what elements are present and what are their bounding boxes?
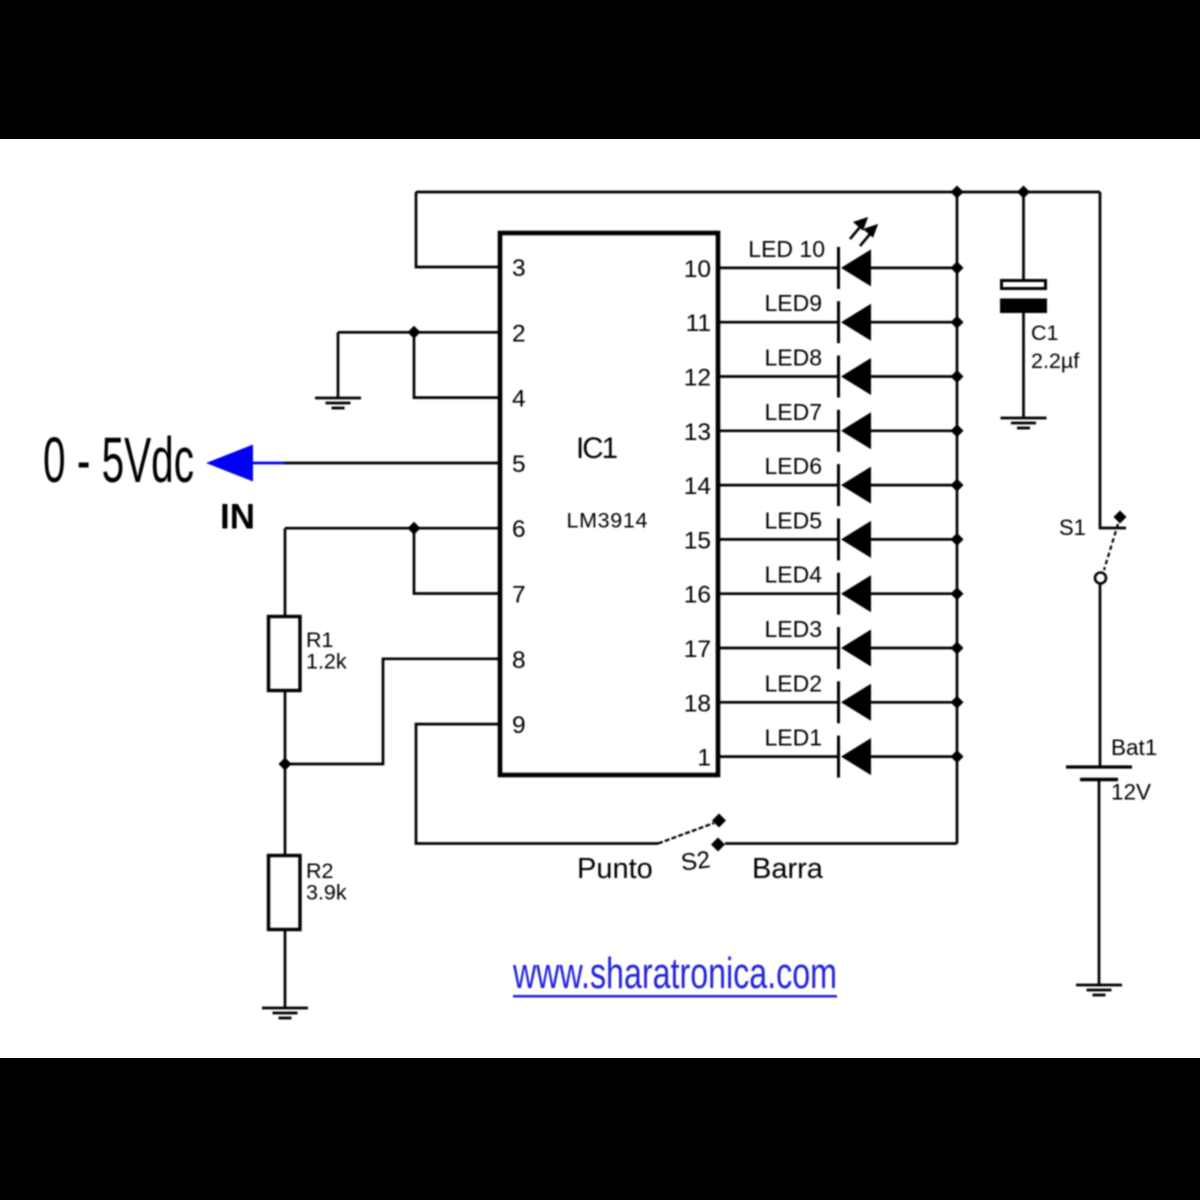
svg-text:2: 2 [512,320,526,347]
node S2 upper contact [712,814,726,828]
wire pin6 down to R1 [284,528,287,616]
svg-text:LED9: LED9 [764,290,822,316]
node junction bus LED7 [951,424,964,437]
wire R1 bottom to junction [284,691,287,856]
LED2 diode [720,681,957,723]
battery Bat1 [1066,767,1132,780]
ground (C1) [1001,418,1047,428]
wire S2 to right bus [725,842,957,845]
op-amp U1 IC1 LM3914 box [500,233,718,775]
wire C1 top [1022,192,1025,280]
svg-text:0 - 5Vdc: 0 - 5Vdc [43,424,194,496]
svg-text:Barra: Barra [752,853,824,885]
LED6 diode [720,464,957,506]
node junction bus LED4 [951,587,964,600]
svg-text:Bat1: Bat1 [1111,735,1157,760]
svg-text:S2: S2 [679,846,711,876]
LED3 diode [720,627,957,669]
svg-text:LED5: LED5 [764,507,822,533]
node junction R1/R2/pin8 [279,758,292,771]
node junction bus LED3 [951,642,964,655]
LED10 emission arrows [850,219,876,246]
wire input blue segment [250,462,284,465]
svg-text:7: 7 [512,582,526,609]
svg-text:2.2µf: 2.2µf [1031,349,1079,373]
wire top V+ rail [416,191,1100,194]
node S2 lower contact [711,838,725,852]
capacitor C1 [1000,281,1047,418]
svg-text:IN: IN [220,498,255,537]
svg-text:8: 8 [512,647,526,674]
svg-text:LED 10: LED 10 [748,236,825,262]
svg-text:LED8: LED8 [764,345,822,371]
wire pin 7 [414,528,498,593]
svg-text:15: 15 [684,527,711,554]
svg-text:LED4: LED4 [764,562,822,588]
node junction bus LED2 [951,696,964,709]
svg-text:6: 6 [512,516,526,543]
ground (R2) [262,1008,308,1018]
svg-text:LED2: LED2 [764,670,822,696]
wire battery to ground [1098,781,1101,984]
node junction bus LED1 [951,750,964,763]
svg-text:5: 5 [512,451,526,478]
svg-text:14: 14 [684,473,711,500]
svg-text:11: 11 [686,310,711,337]
LED1 diode [720,736,957,778]
svg-text:LED1: LED1 [764,725,822,751]
LED7 diode [720,410,957,452]
wire right vertical bus [956,192,959,844]
svg-text:13: 13 [684,419,711,446]
node junction bus LED5 [951,533,964,546]
svg-text:LED7: LED7 [764,399,822,425]
LED10 diode [720,247,957,289]
svg-text:9: 9 [512,712,526,739]
node junction C1 top [1017,186,1030,199]
svg-text:10: 10 [684,256,711,283]
svg-text:LED3: LED3 [764,616,822,642]
LED8 diode [720,356,957,398]
svg-text:12V: 12V [1111,780,1151,805]
wire from top rail down to pin 3 [416,192,498,267]
svg-text:1: 1 [697,745,711,772]
svg-text:S1: S1 [1059,515,1086,540]
svg-text:C1: C1 [1031,321,1058,345]
wire R2 bottom [284,930,287,1008]
svg-text:R1: R1 [306,628,333,652]
svg-text:R2: R2 [306,859,333,883]
underline [513,995,837,998]
wire pin2 ground stub [337,332,340,397]
wire pin 6 [285,527,498,530]
svg-text:18: 18 [684,690,711,717]
switch S1 [1095,511,1127,584]
svg-text:LM3914: LM3914 [567,509,648,533]
input arrow (blue) [206,445,253,482]
svg-text:3: 3 [512,255,526,282]
svg-text:12: 12 [684,365,711,392]
resistor R2 [269,856,301,930]
svg-text:IC1: IC1 [576,432,618,465]
wire S1 top [1100,192,1126,528]
svg-text:1.2k: 1.2k [306,650,347,674]
ground (battery) [1076,985,1122,995]
wire pin 4 [414,332,498,397]
resistor R1 [269,617,301,691]
wire pin 2 [338,331,498,334]
wire pin 9 [416,724,658,843]
svg-text:4: 4 [512,386,526,413]
svg-text:Punto: Punto [577,853,653,885]
ground (pin 2) [315,398,361,408]
wire pin 8 [285,659,498,764]
svg-text:3.9k: 3.9k [306,881,347,905]
LED4 diode [720,573,957,615]
switch S2 lever [658,823,714,844]
node junction pin6/pin7 [408,522,421,535]
node junction bus LED8 [951,370,964,383]
svg-text:16: 16 [684,582,711,609]
svg-text:www.sharatronica.com: www.sharatronica.com [512,949,837,998]
wire S1 to battery [1099,584,1102,766]
LED9 diode [720,301,957,343]
svg-text:17: 17 [684,636,711,663]
node junction bus top [951,186,964,199]
node junction bus LED9 [951,316,964,329]
node junction pin2/pin4 [408,326,421,339]
svg-text:LED6: LED6 [764,453,822,479]
wire pin 5 [284,462,498,465]
node junction bus LED10 [951,261,964,274]
LED5 diode [720,518,957,560]
node junction bus LED6 [951,479,964,492]
